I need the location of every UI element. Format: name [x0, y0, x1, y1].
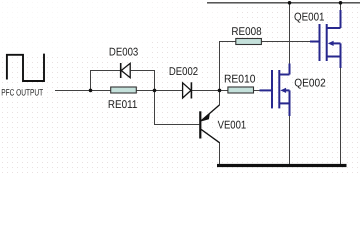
svg-text:DE002: DE002: [169, 66, 198, 78]
svg-text:PFC OUTPUT: PFC OUTPUT: [1, 88, 43, 98]
svg-text:DE003: DE003: [109, 47, 138, 59]
svg-text:RE011: RE011: [108, 99, 137, 111]
svg-text:RE010: RE010: [224, 73, 256, 85]
svg-text:QE002: QE002: [294, 77, 326, 89]
svg-text:QE001: QE001: [294, 11, 325, 23]
svg-text:VE001: VE001: [218, 119, 247, 131]
svg-text:RE008: RE008: [231, 26, 261, 38]
